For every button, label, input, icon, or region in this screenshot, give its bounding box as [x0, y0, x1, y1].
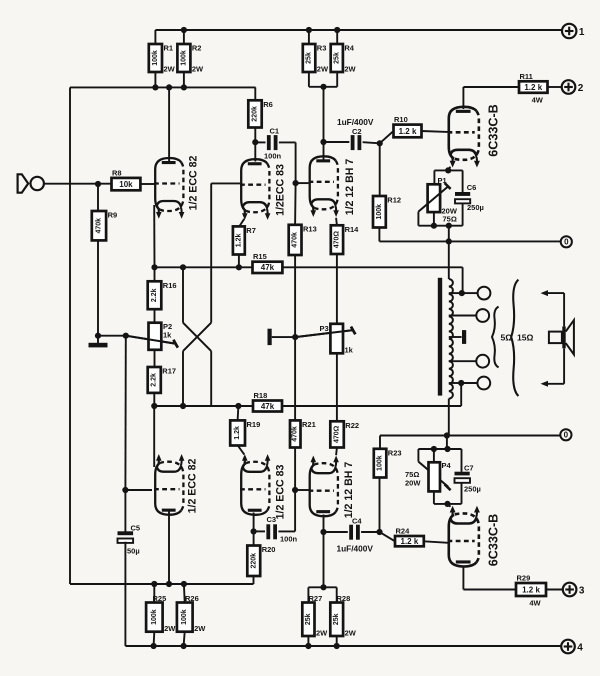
svg-text:1/2 ECC 82: 1/2 ECC 82	[187, 459, 199, 514]
svg-text:15Ω: 15Ω	[517, 333, 534, 343]
svg-text:5Ω: 5Ω	[501, 333, 513, 343]
svg-text:1k: 1k	[163, 331, 172, 340]
svg-text:R23: R23	[388, 448, 402, 457]
svg-text:220k: 220k	[250, 553, 257, 569]
svg-text:C2: C2	[352, 127, 362, 136]
svg-text:100n: 100n	[280, 535, 298, 544]
svg-text:1.2k: 1.2k	[235, 234, 242, 248]
svg-text:1.2 k: 1.2 k	[399, 127, 417, 136]
svg-text:R29: R29	[517, 574, 531, 583]
svg-text:P4: P4	[442, 461, 452, 470]
svg-text:1/2 ECC 82: 1/2 ECC 82	[188, 156, 200, 211]
svg-text:1/2ECC 83: 1/2ECC 83	[275, 164, 287, 216]
svg-text:20W: 20W	[405, 479, 421, 488]
svg-text:2W: 2W	[164, 65, 176, 74]
svg-text:R6: R6	[263, 100, 273, 109]
svg-text:0: 0	[564, 431, 569, 440]
svg-text:1.2k: 1.2k	[234, 426, 241, 440]
svg-text:2W: 2W	[194, 624, 206, 633]
svg-text:R24: R24	[396, 527, 411, 536]
svg-text:470Ω: 470Ω	[333, 231, 340, 249]
svg-text:2W: 2W	[344, 65, 356, 74]
svg-text:25k: 25k	[333, 613, 340, 625]
svg-text:R1: R1	[164, 44, 174, 53]
svg-text:1k: 1k	[345, 346, 354, 355]
svg-text:100n: 100n	[264, 152, 282, 161]
svg-text:470k: 470k	[292, 232, 299, 248]
svg-text:25k: 25k	[305, 613, 312, 625]
svg-text:100k: 100k	[151, 609, 158, 625]
svg-text:R14: R14	[345, 225, 360, 234]
svg-text:6C33C-B: 6C33C-B	[486, 104, 500, 157]
svg-text:R27: R27	[309, 594, 323, 603]
svg-text:R4: R4	[344, 44, 354, 53]
svg-text:3: 3	[579, 585, 585, 596]
svg-text:R7: R7	[246, 226, 256, 235]
svg-text:R8: R8	[112, 168, 122, 177]
svg-text:1.2 k: 1.2 k	[524, 83, 542, 92]
svg-text:1/2 12 BH 7: 1/2 12 BH 7	[343, 462, 355, 519]
svg-text:50µ: 50µ	[127, 547, 140, 556]
svg-text:47k: 47k	[261, 402, 275, 411]
svg-text:C7: C7	[464, 464, 474, 473]
svg-text:P1: P1	[438, 176, 447, 185]
svg-text:25k: 25k	[306, 52, 313, 64]
svg-text:75Ω: 75Ω	[443, 215, 457, 224]
svg-text:1uF/400V: 1uF/400V	[337, 544, 374, 554]
svg-text:R28: R28	[337, 594, 351, 603]
svg-text:47k: 47k	[261, 263, 275, 272]
svg-text:R18: R18	[254, 391, 268, 400]
svg-text:R16: R16	[163, 281, 177, 290]
svg-text:R11: R11	[520, 72, 533, 81]
svg-text:C1: C1	[270, 127, 280, 136]
svg-text:470k: 470k	[95, 218, 102, 234]
svg-text:2W: 2W	[164, 624, 176, 633]
svg-text:R15: R15	[253, 252, 267, 261]
svg-text:R13: R13	[303, 224, 317, 233]
svg-text:100k: 100k	[377, 455, 384, 471]
svg-text:R26: R26	[185, 594, 199, 603]
svg-text:R3: R3	[317, 44, 327, 53]
svg-text:470Ω: 470Ω	[334, 425, 341, 443]
svg-text:R12: R12	[387, 196, 401, 205]
svg-text:100k: 100k	[181, 609, 188, 625]
svg-text:2W: 2W	[317, 65, 329, 74]
svg-text:2.2k: 2.2k	[151, 373, 158, 387]
svg-text:R9: R9	[108, 211, 118, 220]
svg-text:R21: R21	[302, 420, 316, 429]
svg-text:2W: 2W	[316, 629, 328, 638]
svg-text:2: 2	[578, 83, 584, 94]
svg-text:4W: 4W	[529, 599, 541, 608]
svg-text:R17: R17	[162, 367, 176, 376]
svg-text:1/2 12 BH 7: 1/2 12 BH 7	[344, 159, 356, 216]
svg-text:2W: 2W	[192, 65, 204, 74]
svg-text:R19: R19	[247, 420, 261, 429]
svg-text:R2: R2	[192, 44, 202, 53]
svg-text:10k: 10k	[119, 180, 133, 189]
svg-text:4: 4	[577, 642, 583, 653]
svg-text:2W: 2W	[345, 629, 357, 638]
svg-text:1uF/400V: 1uF/400V	[337, 117, 374, 127]
svg-text:R10: R10	[394, 115, 408, 124]
svg-text:1.2 k: 1.2 k	[522, 585, 540, 594]
svg-text:470k: 470k	[292, 426, 299, 442]
svg-text:2.2k: 2.2k	[151, 288, 158, 302]
svg-text:250µ: 250µ	[467, 203, 484, 212]
svg-text:0: 0	[564, 238, 569, 247]
svg-text:100k: 100k	[180, 50, 187, 66]
svg-text:P3: P3	[320, 324, 329, 333]
svg-text:100k: 100k	[376, 204, 383, 220]
svg-text:25k: 25k	[333, 52, 340, 64]
svg-text:1.2 k: 1.2 k	[401, 537, 419, 546]
svg-text:1: 1	[579, 27, 585, 38]
svg-text:4W: 4W	[532, 95, 544, 104]
svg-text:220k: 220k	[252, 106, 259, 122]
svg-text:R20: R20	[262, 545, 276, 554]
svg-text:250µ: 250µ	[464, 485, 481, 494]
svg-text:R22: R22	[345, 421, 359, 430]
svg-text:6C33C-B: 6C33C-B	[486, 514, 500, 567]
svg-text:C6: C6	[467, 183, 477, 192]
svg-text:1/2 ECC 83: 1/2 ECC 83	[275, 465, 287, 520]
svg-text:C5: C5	[131, 524, 141, 533]
svg-text:100k: 100k	[152, 50, 159, 66]
svg-text:R25: R25	[153, 594, 167, 603]
